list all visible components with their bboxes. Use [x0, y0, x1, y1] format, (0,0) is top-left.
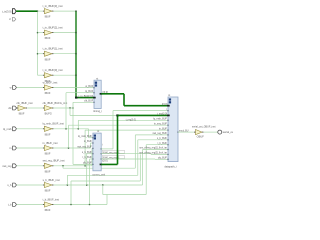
buffer t_in_IBUF[2]_inst [43, 32, 45, 34]
svg-text:BUFG: BUFG [45, 112, 52, 116]
wire in up to run [68, 125, 70, 148]
svg-text:t[3:0]: t[3:0] [162, 103, 168, 106]
svg-text:d: d [9, 17, 11, 21]
pin comm t bus out [100, 164, 103, 166]
svg-text:in_BUF: in_BUF [159, 127, 168, 130]
pin comm clk_BUF [92, 164, 94, 165]
svg-text:IBUF: IBUF [45, 132, 51, 136]
buffer t_in_IBUF[0]_inst [43, 74, 45, 76]
buffer s_b_IBUF_inst [43, 184, 45, 186]
svg-text:i: i [102, 144, 103, 147]
svg-text:lq_msb: lq_msb [3, 127, 12, 131]
svg-text:timing_i: timing_i [93, 109, 102, 113]
svg-text:t_reg[3:0]: t_reg[3:0] [157, 113, 168, 116]
svg-text:s_b: s_b [7, 183, 12, 187]
pin comm lq_msb_BUF [92, 137, 94, 138]
pin timing lq [93, 92, 95, 93]
wire bus t out of timing [101, 93, 124, 95]
svg-text:clq_BUF: clq_BUF [158, 157, 168, 160]
svg-text:lq_msb_IBUF_inst: lq_msb_IBUF_inst [43, 122, 64, 126]
svg-text:encd_BU: encd_BU [179, 130, 189, 132]
pin timing w [93, 87, 95, 88]
wire s_b net [54, 184, 143, 186]
svg-text:w_IBUF_inst: w_IBUF_inst [43, 80, 58, 84]
svg-text:serial_out_OBUF_inst: serial_out_OBUF_inst [192, 126, 216, 129]
pin comm t_b_BUF [92, 158, 94, 159]
svg-text:st: st [168, 94, 170, 97]
pin datapath 5 [167, 125, 169, 126]
wire clk run to bold corner [70, 114, 118, 116]
svg-text:w_BUF: w_BUF [85, 85, 93, 88]
wire lq_msb run to datapath p4 [78, 119, 168, 121]
node swt_reg branch datapath [84, 165, 85, 166]
wire t_b up to under-run [70, 181, 72, 205]
wire bus r into datapath p3 [118, 114, 169, 116]
svg-text:swt_reg_BUF: swt_reg_BUF [77, 146, 92, 149]
wire under-run y175.3 [67, 174, 137, 176]
node s_b branch under-run [67, 184, 68, 185]
wire swt_reg run to datapath p6 [85, 129, 168, 131]
pin comm fsm1 out [100, 153, 102, 154]
buffer in_IBUF_inst [43, 147, 45, 149]
wire in up to comm unit [90, 143, 92, 148]
wire clk down to bold corner run [69, 108, 71, 115]
svg-text:w: w [10, 87, 12, 90]
node t_b branch comm unit [89, 204, 90, 205]
wire clk into comm unit [73, 163, 93, 165]
wire bus t vertical [123, 94, 125, 106]
wire t_b up to comm unit [89, 159, 91, 205]
svg-text:s_b_IBUF_inst: s_b_IBUF_inst [43, 178, 60, 182]
node s_b branch drop [102, 184, 103, 185]
svg-text:lq_msb_BUF: lq_msb_BUF [78, 135, 92, 138]
svg-text:IBUF: IBUF [45, 36, 51, 40]
wire t_in_IBUF[2] out [54, 32, 77, 34]
wire t_b join under-run [106, 195, 108, 205]
wire swt_reg net [54, 165, 93, 167]
svg-text:IBUF: IBUF [45, 15, 51, 19]
svg-text:swt_reg_IBUF_inst: swt_reg_IBUF_inst [43, 159, 65, 163]
node fan t1 [37, 53, 38, 54]
wire lq_msb net [54, 128, 89, 130]
wire lq_msb up to timing [65, 93, 67, 129]
wire t_b net [54, 204, 108, 206]
pin comm fsm2 out [100, 158, 102, 159]
svg-text:t_b: t_b [8, 203, 12, 207]
pin datapath 3 [167, 115, 170, 117]
svg-text:t_b_IBUF_inst: t_b_IBUF_inst [42, 197, 59, 201]
svg-text:IBUF: IBUF [45, 208, 51, 212]
svg-text:clk_IBUF_BUFG_inst: clk_IBUF_BUFG_inst [43, 101, 68, 105]
pin comm i out [100, 148, 102, 149]
wire swt_reg drop to under-run [62, 166, 64, 168]
svg-text:lq_msb_BUF: lq_msb_BUF [153, 118, 167, 121]
wire s_b drop right of comm unit [102, 185, 104, 195]
wire tap t0 [38, 74, 43, 76]
node bus join t1 [75, 53, 76, 54]
svg-text:clk_IBUF_inst: clk_IBUF_inst [17, 101, 33, 105]
wire bus r out of comm unit [101, 163, 117, 165]
node bus join t0 [75, 75, 76, 76]
wire s_b up to under-run [66, 175, 68, 185]
svg-text:st: st [97, 130, 99, 133]
svg-text:t_b_BUF: t_b_BUF [82, 156, 92, 159]
svg-text:s_b_BUF: s_b_BUF [82, 151, 93, 154]
pin datapath 11 [167, 154, 169, 155]
svg-text:IBUF: IBUF [19, 112, 25, 116]
module comm_unit [93, 133, 101, 171]
svg-text:t_in_IBUF[2]_inst: t_in_IBUF[2]_inst [42, 26, 62, 30]
wire riser to datapath p8 [137, 140, 139, 176]
wire t_b port to IBUF [17, 204, 43, 206]
pin timing clk [93, 102, 95, 103]
svg-text:in_BUF: in_BUF [84, 140, 93, 143]
pin timing t out [100, 93, 103, 95]
pin datapath 1 [167, 105, 170, 107]
buffer clk_IBUF_inst [17, 107, 19, 109]
svg-text:t[3:0]: t[3:0] [102, 159, 108, 162]
svg-text:t_in_IBUF[0]_inst: t_in_IBUF[0]_inst [42, 68, 62, 72]
svg-text:swt_reg: swt_reg [2, 164, 12, 168]
wire clk net [54, 107, 74, 109]
wire lq_msb up to run [77, 120, 79, 129]
svg-text:lq_BUF: lq_BUF [85, 90, 94, 93]
wire lq_msb down to comm unit [88, 129, 90, 138]
svg-text:OBUF: OBUF [197, 135, 205, 139]
node bus join t2 [75, 32, 76, 33]
wire bus t into datapath p1 [124, 105, 168, 107]
wire clk_IBUF to BUFG [27, 107, 43, 109]
wire OBUF to output port [204, 131, 218, 133]
pin datapath 12 [167, 159, 169, 160]
wire s_b port to IBUF [17, 184, 43, 186]
node lq_msb branch datapath [78, 128, 79, 129]
svg-text:clk_BUF: clk_BUF [83, 162, 93, 165]
node fan t3 [37, 10, 38, 11]
wire lq_msb port to IBUF [17, 128, 43, 130]
svg-text:datapath_i: datapath_i [164, 164, 177, 168]
svg-text:s_b_BUF: s_b_BUF [157, 137, 168, 140]
svg-text:t_in[3:0]: t_in[3:0] [2, 9, 12, 13]
pin datapath 6 [167, 130, 169, 131]
node lq_msb branch timing [65, 128, 66, 129]
wire bus r vertical [117, 115, 119, 164]
svg-text:IBUF: IBUF [45, 57, 51, 61]
node bus r corner [116, 114, 118, 116]
wire clk into timing [73, 101, 94, 103]
node in branch datapath [68, 147, 69, 148]
node clk branch a [69, 107, 70, 108]
wire serial_out to OBUF [178, 131, 194, 133]
wire t_in fan vertical [37, 11, 39, 75]
wire under-run y194.5 [103, 194, 146, 196]
wire clk vertical main [72, 102, 74, 164]
wire s_b up to comm unit [86, 154, 88, 185]
svg-text:IBUF: IBUF [45, 189, 51, 193]
svg-text:sev_elfreq_reg[1]_lbuf_iar: sev_elfreq_reg[1]_lbuf_iar [139, 147, 167, 150]
svg-text:IBUF: IBUF [45, 152, 51, 156]
wire fsm1 to datapath p11 [101, 153, 151, 155]
output port serial_out [218, 130, 222, 134]
wire in port to IBUF [17, 147, 43, 149]
wire bus t_IBUF vertical [75, 11, 77, 98]
wire bus t_in from port [16, 10, 37, 12]
buffer clk_IBUF_BUFG_inst [43, 107, 45, 109]
pin timing t bus [93, 97, 96, 99]
buffer w_IBUF_inst [43, 87, 45, 89]
svg-text:serial_out: serial_out [223, 130, 233, 134]
svg-text:comm_unit: comm_unit [92, 173, 105, 177]
svg-text:t_in_BUF[3:0]: t_in_BUF[3:0] [78, 95, 93, 98]
buffer serial_out_OBUF_inst [194, 131, 196, 133]
svg-text:t_in_IBUF[3]_inst: t_in_IBUF[3]_inst [42, 4, 62, 8]
pin datapath 7 [167, 134, 169, 135]
node bus join t3 [75, 10, 76, 11]
svg-text:sev_elfreq_reg[2]_lbuf_iar: sev_elfreq_reg[2]_lbuf_iar [139, 152, 167, 155]
pin datapath 10 [167, 149, 169, 150]
pin comm s_b_BUF [92, 153, 94, 154]
wire under-run y181.0 [71, 180, 140, 182]
node t_b branch under-run [70, 204, 71, 205]
wire in run to datapath p5 [69, 124, 169, 126]
wire riser to datapath p10 [142, 150, 144, 186]
svg-text:in_IBUF_inst: in_IBUF_inst [43, 141, 58, 145]
buffer t_b_IBUF_inst [43, 204, 45, 206]
pin datapath 4 [167, 120, 169, 121]
wire in net [54, 147, 91, 149]
wire fsm2 to datapath p12 [101, 158, 155, 160]
pin comm in_BUF [92, 142, 94, 143]
buffer t_in_IBUF[3]_inst [43, 10, 45, 12]
wire t_in_IBUF[3] out [54, 10, 77, 12]
svg-text:t_reg[3:0]: t_reg[3:0] [125, 118, 136, 121]
module datapath_i [168, 97, 178, 162]
wire w port to IBUF [17, 87, 43, 89]
wire riser to datapath p9 [145, 145, 147, 195]
wire t_in_IBUF[0] out [54, 74, 77, 76]
svg-text:in_seq_BUF: in_seq_BUF [154, 122, 168, 125]
node clk branch b [72, 107, 73, 108]
svg-text:IBUF: IBUF [45, 169, 51, 173]
wire t_in_IBUF[1] out [54, 53, 77, 55]
buffer lq_msb_IBUF_inst [43, 128, 45, 130]
node swt_reg branch low [62, 165, 63, 166]
pin comm swt_reg_BUF [92, 148, 94, 149]
wire under-run y168.2 [63, 167, 135, 169]
wire riser to datapath p11 [139, 154, 141, 181]
node s_b branch comm unit [86, 184, 87, 185]
svg-text:swt_reg_BUF: swt_reg_BUF [153, 132, 168, 135]
node bus corner [75, 97, 77, 99]
wire tap t3 [38, 10, 43, 12]
svg-text:clk: clk [8, 106, 12, 110]
wire tap t1 [38, 53, 43, 55]
buffer swt_reg_IBUF_inst [43, 165, 45, 167]
svg-text:in: in [9, 146, 12, 150]
wire tap t2 [38, 32, 43, 34]
wire bus t_IBUF into timing [76, 97, 94, 99]
wire swt_reg up to run [84, 130, 86, 166]
svg-text:IBUF: IBUF [45, 91, 51, 95]
svg-text:st: st [96, 77, 98, 80]
pin datapath 2 [167, 110, 169, 111]
svg-text:t_b_BUF: t_b_BUF [157, 142, 167, 145]
wire i to datapath p2 [101, 148, 113, 150]
svg-text:t_in_IBUF[1]_inst: t_in_IBUF[1]_inst [42, 47, 62, 51]
svg-text:clk_BUF: clk_BUF [84, 100, 94, 103]
wire swt_reg port to IBUF [17, 165, 43, 167]
buffer t_in_IBUF[1]_inst [43, 53, 45, 55]
pin datapath 8 [167, 139, 169, 140]
wire riser to datapath p7 [134, 135, 136, 168]
module timing_i [94, 80, 101, 108]
node fan t2 [37, 32, 38, 33]
wire w_IBUF to timing [54, 87, 95, 89]
pin datapath serial out [177, 132, 179, 133]
pin datapath 9 [167, 144, 169, 145]
wire swt_reg up to comm unit [91, 148, 93, 165]
